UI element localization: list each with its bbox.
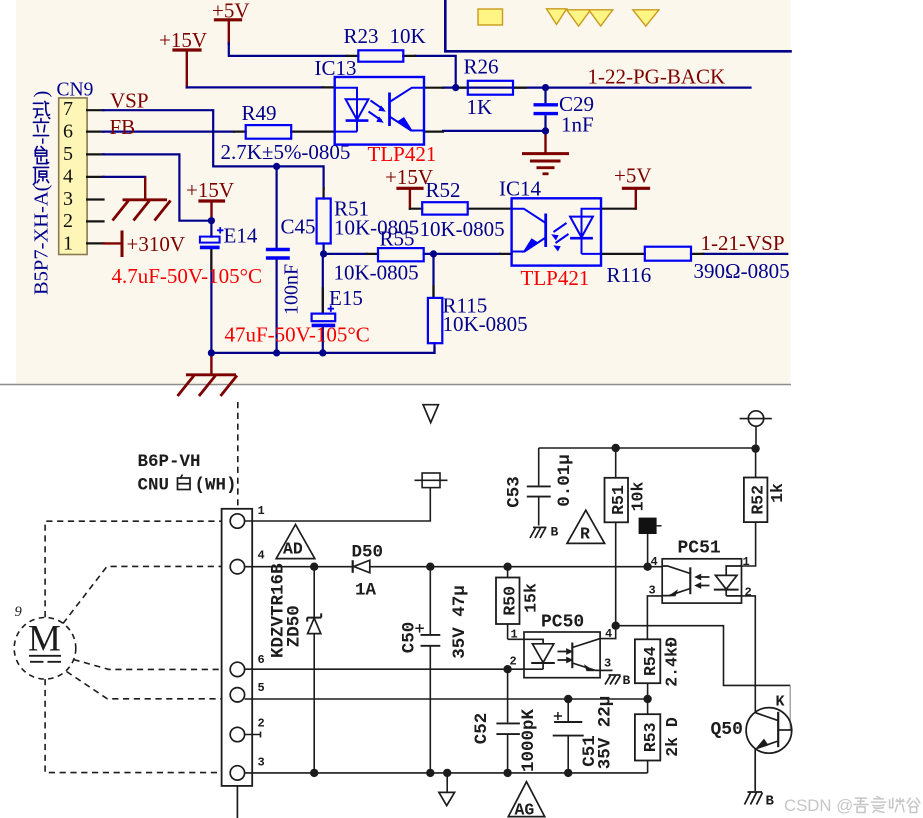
watermark glyph XIA (890, 798, 904, 812)
svg-text:C53: C53 (505, 476, 525, 508)
wire pin4 to chassis ground (103, 176, 145, 178)
node junction (447.2,772.9) (443, 769, 451, 777)
svg-text:35V 47µ: 35V 47µ (450, 585, 470, 659)
svg-text:1-22-PG-BACK: 1-22-PG-BACK (588, 65, 726, 89)
capacitor E15 electrolytic (312, 306, 336, 326)
node junction (314.2,566.7) (310, 563, 318, 571)
ground B below Q50 (745, 792, 763, 805)
node junction (314.2,772.9) (310, 769, 318, 777)
pin CN9-3 stub (87, 198, 103, 200)
node junction (433.5,253.9) (430, 250, 437, 257)
capacitor C53 (538, 448, 540, 526)
svg-text:D50: D50 (352, 543, 384, 563)
resistor R51 (10k) (615, 448, 617, 478)
svg-text:B6P-VH: B6P-VH (138, 452, 201, 472)
pin CN9-4 stub (87, 176, 103, 178)
node junction (430.3,566.7) (426, 563, 434, 571)
svg-text:1: 1 (511, 628, 518, 642)
svg-text:47uF-50V-105°C: 47uF-50V-105°C (225, 323, 370, 347)
svg-text:R55: R55 (380, 227, 415, 251)
svg-text:PC51: PC51 (678, 539, 721, 559)
wire R23 to PG-BACK junction (415, 56, 456, 88)
wire E14 to bottom rail (210, 221, 212, 353)
svg-text:9: 9 (15, 604, 23, 620)
svg-text:100nF: 100nF (281, 264, 303, 315)
svg-text:10K-0805: 10K-0805 (420, 217, 505, 241)
pin CN9-1 stub (87, 242, 103, 244)
op-amp IC13 optocoupler TLP421 (335, 77, 424, 145)
svg-text:10K: 10K (390, 24, 426, 48)
resistor R52 (1k) (755, 449, 757, 478)
capacitor C50 branch (429, 567, 431, 634)
svg-text:AD: AD (283, 540, 303, 559)
svg-text:R49: R49 (242, 101, 277, 125)
op-amp PC50 optocoupler (524, 632, 600, 678)
resistor R49 body (246, 125, 292, 139)
connector CNU B6P-VH body (222, 509, 253, 786)
pin CN9-2 stub (87, 220, 103, 222)
power +5V (at IC14) (614, 164, 652, 209)
resistor R26 body (468, 81, 513, 95)
node open triangle marker top (423, 405, 438, 423)
svg-text:CSDN @: CSDN @ (784, 796, 853, 815)
node junction (507.6,669.2) (503, 665, 511, 673)
svg-text:CNU: CNU (138, 476, 170, 496)
diode D50 (353, 560, 370, 573)
capacitor C51 (567, 699, 569, 773)
svg-text:3: 3 (604, 657, 611, 671)
svg-text:IC13: IC13 (315, 56, 357, 80)
node junction R52 top (751, 444, 759, 452)
wire R115 branch (432, 254, 434, 298)
node: yellow triangle marker 1 (547, 9, 567, 25)
resistor R54 (2.4k) (635, 639, 660, 683)
svg-text:R52: R52 (426, 178, 461, 202)
ground: chassis ground bottom (supply rail) (178, 353, 238, 396)
wire +15V to IC13 anode (187, 86, 323, 88)
node junction (545.5,87.6) (542, 84, 549, 91)
node junction (568.2,699) (564, 695, 572, 703)
node motor DC symbol (29, 655, 61, 657)
ground B at PC50 pin3 (600, 670, 620, 684)
svg-text:10k: 10k (629, 482, 648, 512)
wire R51 bottom to PC50 collector node (615, 522, 617, 625)
separator line between the two images (0, 384, 791, 386)
capacitor C29 (534, 88, 559, 131)
svg-text:R: R (580, 525, 590, 544)
wire pin4 row (245, 566, 663, 568)
wire PC51 pin3 to R54 (647, 596, 662, 639)
node: yellow triangle marker 2 (567, 10, 591, 26)
wire C45 branch (276, 166, 278, 248)
svg-text:AG: AG (515, 801, 535, 818)
svg-text:B: B (551, 525, 559, 540)
svg-text:+15V: +15V (186, 178, 234, 202)
svg-text:R52: R52 (749, 485, 768, 515)
node junction (507.6,772.9) (503, 769, 511, 777)
node AD triangle marker (276, 525, 315, 559)
node junction (211.4,220.7) (208, 217, 215, 224)
node test point black square (639, 518, 657, 534)
node R triangle marker (567, 510, 605, 543)
pin CN9-7 stub (87, 109, 103, 111)
svg-text:): ) (31, 91, 53, 98)
svg-text:+310V: +310V (127, 232, 186, 256)
wire pin6 row to PC50 pin2 (245, 668, 524, 670)
resistor R53 (2k) (635, 714, 660, 760)
ground: chassis ground at pins 4-2 (113, 177, 171, 221)
wire PC50 pin4 / R51 node to Q50 base (600, 626, 616, 639)
capacitor C52 (507, 669, 509, 773)
svg-text:R116: R116 (607, 263, 652, 287)
node junction (322.8,352.9) (319, 349, 326, 356)
node junction (323.6,253.9) (320, 250, 327, 257)
svg-text:2: 2 (63, 210, 73, 232)
wire R52 bottom to PC51 pin1 (742, 522, 756, 566)
svg-text:6: 6 (258, 653, 265, 667)
svg-text:4: 4 (605, 627, 612, 641)
svg-text:E14: E14 (224, 224, 258, 248)
wire VSP: pin7 to R51 top (103, 110, 324, 188)
svg-text:4: 4 (258, 549, 265, 563)
node: yellow triangle marker 4 (633, 10, 659, 26)
svg-text:1A: 1A (355, 581, 377, 601)
svg-text:2.7K±5%-0805: 2.7K±5%-0805 (221, 140, 351, 164)
svg-text:-: - (31, 138, 53, 145)
svg-text:4: 4 (63, 165, 73, 187)
svg-text:E15: E15 (329, 286, 363, 310)
svg-text:1: 1 (743, 555, 750, 569)
ground: earth ground at C29 (522, 131, 569, 174)
label B5P7-XH-A(original-vertical) rotated part name (31, 91, 53, 295)
node junction (545.5,130.9) (542, 127, 549, 134)
wire dashed motor to pin6 (74, 660, 222, 670)
label C50 plus sign (415, 624, 424, 633)
svg-text:0.01µ: 0.01µ (555, 454, 575, 507)
power +5V (top) (212, 0, 250, 44)
node junction (568.2,772.9) (564, 769, 572, 777)
node junction R51 top (612, 444, 620, 452)
svg-text:1: 1 (258, 504, 265, 518)
svg-text:5: 5 (258, 681, 265, 695)
pin CNU-2 circle (230, 727, 244, 741)
node junction (507.6,566.7) (503, 563, 511, 571)
resistor R23 body (358, 50, 403, 61)
svg-text:TLP421: TLP421 (521, 266, 590, 290)
node junction (211.4,352.9) (208, 349, 215, 356)
svg-text:IC14: IC14 (499, 177, 542, 201)
node junction (455.7,87.6) (452, 84, 459, 91)
svg-text:R23: R23 (344, 24, 379, 48)
node: yellow pad square (cut-off component above) (478, 9, 503, 25)
pin CNU-1 circle (230, 514, 244, 528)
svg-text:6: 6 (63, 121, 73, 143)
svg-text:PC50: PC50 (541, 613, 584, 633)
watermark glyph GU (907, 798, 920, 812)
wire top net (C53/R51/R52 node) (539, 447, 756, 449)
svg-text:2: 2 (258, 717, 265, 731)
op-amp PC51 optocoupler (662, 559, 741, 603)
pin CNU-5 circle (230, 688, 244, 702)
svg-text:R50: R50 (501, 586, 520, 616)
power +15V (at E14) (186, 178, 234, 219)
wire dashed motor to pin5 (67, 672, 222, 699)
capacitor C45 (266, 250, 290, 259)
svg-text:K: K (776, 694, 785, 711)
node AG triangle marker (508, 782, 544, 817)
wire IC14 to R116 out net 1-21-VSP (703, 253, 787, 255)
svg-text:5: 5 (63, 143, 73, 165)
svg-text:B: B (766, 794, 775, 810)
node open triangle marker at rail (446, 773, 448, 793)
power +310V at pin1 (104, 232, 186, 256)
wire pin5 to +15V/E14 node (103, 154, 211, 220)
node terminator box symbol (422, 473, 440, 488)
wire E15 branch (322, 254, 324, 353)
zener diode ZD50 symbol (307, 613, 321, 633)
svg-text:35V 22µ: 35V 22µ (596, 696, 616, 770)
svg-text:R26: R26 (464, 55, 499, 79)
pin CN9-6 stub (87, 131, 103, 133)
wire R55 to IC14 LED (424, 253, 500, 255)
resistor R52 body (422, 202, 468, 214)
svg-text:Q50: Q50 (711, 720, 743, 740)
wire dashed harness above connector (237, 402, 239, 509)
pin CNU-2 no-connect stub (245, 732, 261, 738)
pin CNU-4 circle (230, 560, 244, 574)
wire R51 bottom to R55 node (324, 244, 367, 254)
power +15V (at R52) (385, 165, 433, 209)
pin CNU-6 circle (230, 662, 244, 676)
wire connector bottom lead (236, 786, 238, 818)
svg-text:1nF: 1nF (561, 113, 594, 137)
svg-text:R51: R51 (609, 485, 628, 515)
svg-text:R54: R54 (641, 646, 660, 676)
wire pin5 row (245, 698, 648, 700)
svg-text:1: 1 (63, 233, 73, 255)
svg-text:M: M (28, 619, 61, 660)
svg-text:B: B (623, 673, 631, 688)
watermark glyph AI (871, 797, 885, 813)
svg-text:1-21-VSP: 1-21-VSP (701, 231, 785, 255)
wire dashed motor to pin1 (45, 521, 222, 617)
schematic sheet background (top Altium schematic) (16, 0, 791, 384)
svg-text:R53: R53 (641, 722, 660, 752)
wire +5V to R23 (229, 43, 347, 56)
svg-text:390Ω-0805: 390Ω-0805 (694, 259, 790, 283)
svg-text:B5P7-XH-A(: B5P7-XH-A( (31, 184, 53, 295)
zener ZD50 branch (313, 567, 315, 773)
wire IC13 emitter to C29 (443, 130, 546, 132)
wire dashed motor to pin3 (45, 679, 222, 773)
wire pin3 bottom rail (245, 772, 648, 774)
node junction (430.3,772.9) (426, 769, 434, 777)
node supply terminal circle (748, 411, 763, 426)
svg-text:CN9: CN9 (57, 80, 94, 101)
svg-text:TLP421: TLP421 (368, 142, 437, 166)
svg-text:(WH): (WH) (195, 476, 237, 496)
resistor R50 (508, 567, 524, 640)
transistor Q50 (746, 708, 792, 791)
pin CNU-3 circle (230, 766, 244, 780)
svg-text:2: 2 (745, 586, 752, 600)
wire IC13 collector to R26 node (443, 86, 546, 88)
svg-text:2.4kÐ: 2.4kÐ (663, 637, 682, 687)
wire dashed motor to pin4 (63, 566, 222, 623)
ground B below C53 (530, 527, 547, 538)
label glyph BAI (white) (178, 475, 191, 490)
svg-text:+5V: +5V (614, 164, 652, 188)
pin segments (black) of R23 R26 R49 IC13 IC14 R52 R55 R116 (347, 55, 415, 57)
wire square to pin4 row (647, 534, 649, 567)
svg-text:10K-0805: 10K-0805 (443, 312, 528, 336)
svg-text:VSP: VSP (110, 89, 149, 113)
svg-text:1K: 1K (467, 95, 493, 119)
capacitor E14 electrolytic (200, 227, 224, 247)
svg-text:3: 3 (63, 188, 73, 210)
wire PC51 pin2 to Q50 collector (742, 596, 756, 713)
resistor R51 body (317, 199, 331, 244)
svg-text:15k: 15k (522, 583, 541, 613)
svg-text:2k D: 2k D (663, 717, 682, 757)
motor M1 dashed circle (14, 618, 76, 680)
svg-text:1000pK: 1000pK (519, 708, 539, 772)
resistor R115 body (428, 298, 442, 343)
node junction (276.6,166.4) (273, 163, 280, 170)
svg-text:4.7uF-50V-105°C: 4.7uF-50V-105°C (112, 264, 263, 288)
svg-text:1k: 1k (768, 483, 787, 503)
svg-text:3: 3 (258, 756, 265, 770)
wire FB: pin6 to R49 (103, 131, 234, 133)
svg-text:C52: C52 (472, 713, 492, 745)
label C51 plus sign (554, 712, 562, 720)
svg-text:10K-0805: 10K-0805 (334, 261, 419, 285)
pin CN9-5 stub (87, 153, 103, 155)
wire net 1-22-PG-BACK (546, 86, 751, 88)
node: yellow triangle marker 3 (589, 10, 613, 26)
wire: sheet-symbol outline corner top right (445, 0, 790, 51)
power +15V (top left) (159, 28, 207, 87)
svg-text:ZD50: ZD50 (285, 605, 305, 647)
wire pin1 row to terminator (245, 488, 431, 521)
node junction (276.6,352.9) (273, 349, 280, 356)
resistor R55 body (378, 248, 424, 261)
wire bottom supply rail (211, 348, 434, 353)
watermark glyph WU (854, 798, 868, 813)
resistor R116 body (645, 247, 691, 261)
svg-text:C50: C50 (400, 622, 420, 654)
connector CN9 (B5P7-XH-A) (59, 98, 87, 255)
op-amp IC14 optocoupler TLP421 (512, 198, 601, 265)
svg-text:7: 7 (63, 98, 73, 120)
svg-text:FB: FB (110, 115, 136, 139)
svg-text:C45: C45 (281, 215, 316, 239)
